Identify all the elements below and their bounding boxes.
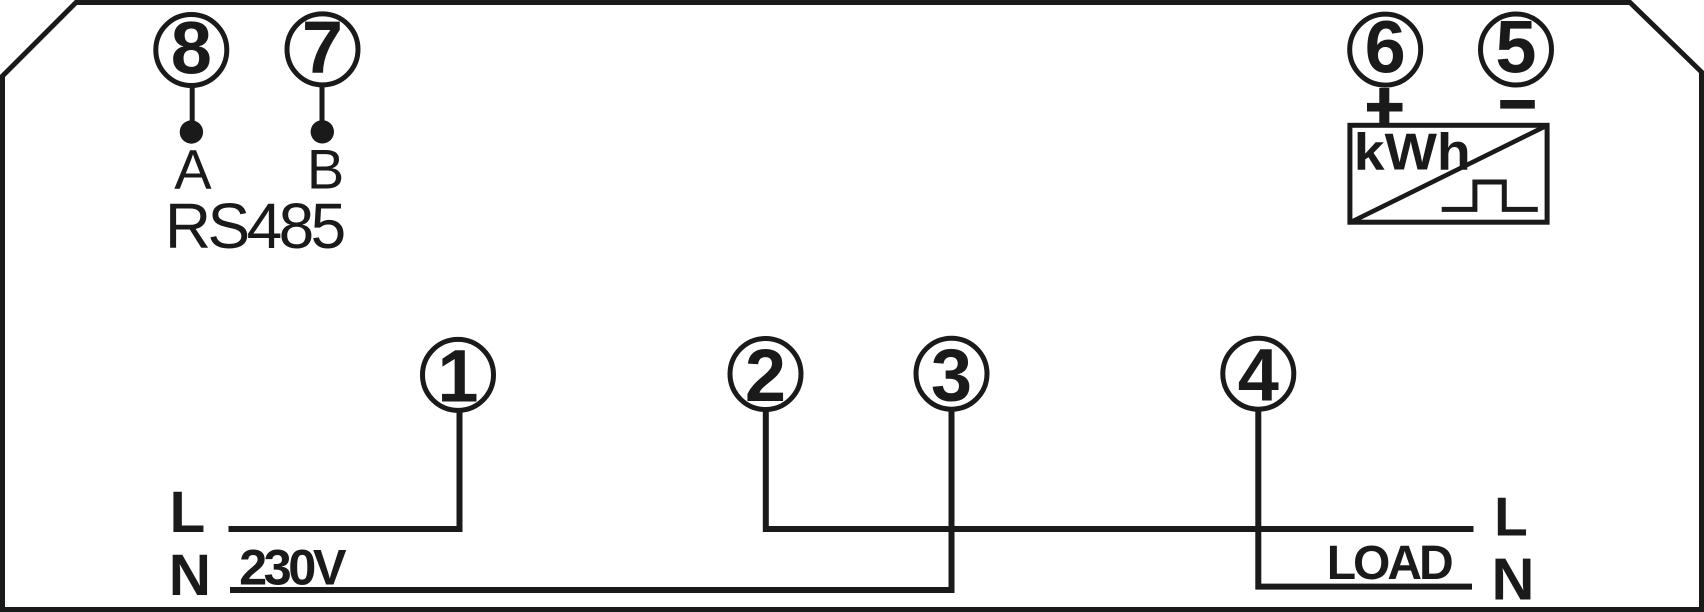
svg-text:kWh: kWh <box>1354 123 1471 181</box>
wire terminal 4 to load N <box>1258 409 1472 587</box>
kWh pulse-output meter box U1 <box>1350 125 1547 222</box>
terminal 3 circle <box>916 338 987 409</box>
wire N supply to terminal 3 <box>230 409 952 590</box>
terminal 4 circle <box>1223 338 1294 409</box>
svg-text:7: 7 <box>302 6 343 89</box>
svg-text:3: 3 <box>931 333 972 416</box>
svg-text:2: 2 <box>745 334 786 417</box>
terminal 2 circle <box>730 339 801 410</box>
wire from terminal 7 to node B <box>320 85 325 132</box>
svg-text:8: 8 <box>171 6 212 89</box>
terminal 8 circle <box>156 15 227 86</box>
wire L supply to terminal 1 <box>229 409 460 529</box>
svg-text:6: 6 <box>1365 6 1406 89</box>
svg-text:1: 1 <box>437 335 478 418</box>
meter box diagonal <box>1350 125 1548 223</box>
node B dot <box>311 120 334 143</box>
svg-text:L: L <box>170 480 206 545</box>
terminal 1 circle <box>423 339 494 410</box>
terminal 5 circle <box>1481 14 1552 85</box>
svg-text:N: N <box>1492 546 1535 612</box>
svg-text:4: 4 <box>1238 333 1279 416</box>
terminal 7 circle <box>287 14 358 85</box>
wire terminal 2 to load L <box>766 409 1474 529</box>
svg-text:N: N <box>169 543 211 608</box>
svg-text:230V: 230V <box>239 539 347 596</box>
svg-text:5: 5 <box>1495 6 1536 89</box>
plus polarity mark / wire to kWh meter <box>1379 88 1389 125</box>
svg-text:RS485: RS485 <box>165 190 344 262</box>
terminal 6 circle <box>1350 14 1421 85</box>
svg-text:L: L <box>1494 486 1528 548</box>
wire from terminal 8 to node A <box>190 85 195 132</box>
svg-text:LOAD: LOAD <box>1327 537 1452 590</box>
pulse waveform symbol <box>1442 182 1538 209</box>
minus polarity mark <box>1500 100 1535 109</box>
node A dot <box>180 120 203 143</box>
